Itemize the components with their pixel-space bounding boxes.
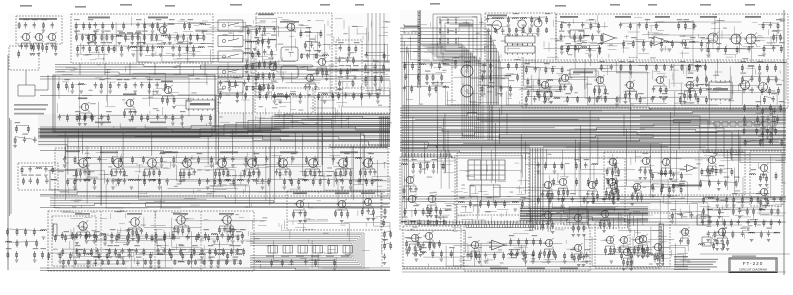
label LBL7 [156,19,162,20]
resistor R279 [426,74,428,82]
resistor R177 [350,169,352,178]
wire [501,67,503,116]
transistor Q21 [364,159,373,168]
wire [63,260,240,262]
wire [524,65,587,80]
wire [64,131,66,158]
ground [432,171,436,173]
wire [623,115,625,137]
wire [400,110,786,112]
label LBL145 [413,205,419,206]
ground [94,31,98,33]
wire shielded cable [250,244,352,257]
resistor R106 [173,96,175,104]
resistor R153 [123,169,125,177]
resistor R40 [77,45,79,53]
label LBL136 [698,84,704,85]
wire [362,146,364,210]
label LBL25 [261,35,267,36]
coil L34 [583,35,589,36]
label LBL123 [619,61,625,62]
coil L35 [581,47,587,48]
coil L51 [660,174,666,175]
capacitor C69 [221,232,224,238]
wire [40,116,390,130]
resistor R313 [599,46,601,54]
ground [668,49,672,51]
wire [673,64,675,87]
wire [367,28,390,56]
capacitor C51 [23,137,26,143]
wire [129,63,131,75]
coil L28 [512,18,518,19]
resistor R284 [435,85,437,93]
capacitor C78 [94,260,97,266]
wire [730,148,732,160]
resistor R83 [315,53,317,59]
ground [411,171,415,173]
resistor R455 [652,172,654,180]
coil L33 [465,62,471,63]
capacitor C151 [721,238,724,244]
resistor R425 [552,221,554,229]
ground [208,257,212,259]
wire [745,139,782,142]
ground [562,199,566,201]
wire [464,206,466,212]
wire [443,31,487,66]
resistor R487 [726,196,728,204]
label LBL148 [435,217,441,218]
ground [507,25,511,27]
resistor R4 [30,43,32,51]
capacitor C15 [257,63,260,69]
ground [426,216,430,218]
node box [570,30,584,38]
wire [613,154,675,197]
capacitor C146 [746,219,749,225]
capacitor C134 [641,246,644,252]
resistor R353 [775,64,777,72]
wire [670,112,672,177]
resistor R62 [263,26,265,34]
resistor R162 [219,169,221,179]
capacitor C84 [487,28,490,34]
capacitor C128 [772,96,775,102]
resistor R76 [263,84,265,92]
coil L54 [708,198,714,199]
resistor R274 [546,28,548,34]
wire [471,78,509,80]
resistor R101 [84,113,86,121]
resistor R535 [604,246,606,255]
transistor Q11 [164,86,171,93]
resistor VR1 [53,224,57,236]
label LBL113 [577,43,583,44]
capacitor C124 [672,172,675,178]
capacitor C32 [133,109,136,115]
resistor R123 [172,114,174,122]
wire [405,224,430,225]
ic U6 [470,185,500,197]
wire [218,242,220,265]
label LBL72 [75,245,81,246]
label LBL66 [22,134,28,135]
wire [247,85,261,87]
resistor R92 [339,80,341,88]
resistor R368 [616,96,618,103]
resistor R523 [549,249,551,257]
wire [589,141,778,143]
ground [189,43,193,45]
ground [303,180,307,182]
transistor Q52 [760,188,767,195]
label [335,193,349,195]
resistor R316 [762,22,764,30]
capacitor C89 [716,46,719,52]
capacitor C100 [769,22,772,28]
capacitor C73 [135,248,138,254]
label LBL176 [722,228,728,229]
ground [121,257,125,259]
wire [573,223,584,225]
label LBL151 [487,197,493,198]
resistor R116 [76,114,78,122]
resistor R240 [293,210,295,219]
wire [343,81,390,107]
label MODE [570,69,596,77]
resistor R119 [107,114,109,122]
ground [119,180,123,182]
label LBL49 [117,79,123,80]
wire [706,61,762,86]
wire [379,13,381,95]
capacitor C95 [638,22,641,28]
resistor R102 [91,113,93,121]
wire [629,98,631,142]
label LBL164 [724,177,730,178]
resistor R254 [16,228,18,236]
block MIX box [452,58,480,105]
ground [363,180,367,182]
resistor R331 [636,91,638,100]
wire [400,119,786,122]
wire [691,203,708,225]
wire [400,127,786,130]
wire shield [441,20,473,54]
ground [738,217,742,219]
capacitor C70 [96,248,99,254]
wire [511,239,541,241]
ground [454,66,458,68]
wire [708,94,710,126]
resistor R317 [777,22,779,30]
wire [425,48,467,139]
wire [302,134,304,176]
resistor R451 [617,192,619,201]
resistor R112 [125,82,127,90]
wire [545,248,554,250]
label LBL18 [88,42,94,43]
wire [640,166,651,168]
label [75,213,90,215]
label LBL154 [461,206,467,207]
wire [485,210,497,212]
wire [259,26,274,28]
resistor R248 [383,219,385,227]
label LBL80 [229,245,235,246]
wire [630,213,689,225]
wire [338,179,382,208]
wire [212,245,234,256]
ground [668,195,672,197]
resistor R180 [76,232,78,240]
resistor R406 [427,220,429,226]
wire [100,146,102,206]
wire [493,184,510,203]
wire [561,150,563,169]
resistor R355 [759,76,761,84]
resistor R188 [229,226,231,233]
ground [15,260,19,262]
capacitor C21 [318,42,321,48]
transistor Q49 [610,182,617,189]
resistor R19 [184,22,186,30]
wire [194,132,298,134]
resistor R370 [538,78,540,86]
resistor R41 [89,45,91,53]
wire [525,164,564,176]
resistor R280 [432,74,434,82]
wire [348,116,350,128]
wire [685,90,696,92]
resistor R352 [766,64,768,72]
wire [163,95,175,97]
transistor Q3 [48,33,55,40]
ground [708,217,712,219]
capacitor C17 [273,26,276,32]
wire [138,33,151,62]
resistor R478 [669,186,671,194]
wire [615,212,702,223]
resistor R35 [177,34,179,42]
ic network [505,36,535,43]
label LBL163 [719,165,725,166]
resistor R263 [42,251,44,259]
transistor Q8 [318,58,325,65]
wire [59,115,210,117]
transistor Q36 [428,195,435,202]
ground [629,269,633,271]
resistor R2 [18,22,20,29]
wire [154,211,156,271]
capacitor C31 [129,109,132,115]
ground [79,180,83,182]
capacitor C80 [299,210,302,216]
label LBL150 [459,197,465,198]
resistor R5 [33,43,35,52]
ground [359,180,363,182]
ground [353,77,357,79]
wire [478,209,480,213]
resistor R473 [762,108,764,116]
ground [85,241,89,243]
wire [520,207,648,212]
wire [436,58,477,139]
wire [178,95,246,128]
wire [248,41,254,42]
resistor R500 [724,219,726,227]
relay RL2 [283,246,293,254]
resistor R17 [152,22,154,30]
wire [400,135,786,139]
wire [145,54,222,56]
wire [552,207,615,209]
wire [292,73,311,83]
transistor Q30 [561,74,568,81]
ground [267,47,271,49]
wire [302,66,338,68]
resistor R169 [279,169,281,179]
ground [746,228,750,230]
wire [324,113,383,115]
capacitor C93 [598,45,601,51]
wire [10,120,12,214]
resistor R366 [596,96,598,103]
wire [654,21,741,23]
coil L31 [443,64,449,65]
coil L56 [759,209,765,210]
label LBL126 [740,61,746,62]
transistor Q2 [35,33,42,40]
ground [187,237,191,239]
resistor R464 [709,180,711,188]
wire [374,213,390,226]
ground [83,180,87,182]
wire [420,28,422,40]
capacitor C109 [742,87,745,93]
resistor R168 [258,169,260,178]
resistor R198 [155,232,157,240]
wire [77,256,134,258]
transistor Q59 [471,241,478,248]
label LBL141 [758,136,764,137]
wire [183,127,185,128]
resistor R96 [383,64,385,72]
resistor R511 [408,244,410,253]
ground [154,241,158,243]
label LBL23 [246,25,252,26]
capacitor C137 [690,212,693,218]
capacitor C155 [582,254,585,260]
capacitor C118 [418,220,421,226]
wire [537,174,605,190]
wire [708,231,777,233]
resistor R372 [537,90,539,98]
wire [258,39,273,40]
wire [40,120,390,132]
wire [248,75,256,77]
wire [447,130,449,156]
label LBL107 [645,19,651,20]
resistor R510 [727,238,729,247]
wire [490,35,492,59]
wire [38,134,390,136]
transistor Q23 [131,218,140,227]
ground [101,31,105,33]
wire [642,34,669,36]
wire [110,37,141,52]
resistor R275 [404,62,406,70]
wire [528,91,549,93]
resistor R538 [623,258,625,267]
resistor R543 [647,245,649,253]
capacitor C83 [486,16,489,22]
wire [702,242,724,244]
resistor R144 [22,178,24,186]
resistor R6 [38,43,40,51]
resistor R159 [183,169,185,179]
transistor Q13 [114,159,123,168]
label LBL54 [106,111,112,112]
ground [761,117,765,119]
resistor R268 [494,28,496,34]
label LBL133 [695,61,701,62]
coil L17 [290,94,296,95]
resistor R34 [169,34,171,42]
wire [700,253,790,255]
switch S1 [218,20,243,31]
resistor R530 [533,238,535,246]
wire [320,99,336,101]
resistor R536 [610,246,612,254]
resistor R56 [252,63,254,71]
transistor Q37 [408,195,415,202]
resistor R499 [717,219,719,227]
coil L45 [401,164,407,165]
resistor R417 [558,188,560,198]
wire [81,43,108,55]
resistor R466 [735,180,737,188]
resistor R283 [429,85,431,93]
wire [78,81,80,123]
wire [400,139,786,141]
ground [656,264,660,266]
label LBL84 [107,257,113,258]
resistor R67 [271,49,273,57]
ground [75,180,79,182]
resistor R182 [132,228,134,237]
wire [377,160,390,196]
resistor R192 [86,232,88,240]
label LBL13 [117,31,123,32]
label LBL171 [670,209,676,210]
resistor R137 [332,92,334,100]
ground [44,175,48,177]
capacitor C82 [383,254,386,260]
resistor R520 [475,251,477,258]
resistor R131 [259,92,261,100]
capacitor C61 [373,169,376,175]
resistor R287 [725,46,727,54]
capacitor C41 [164,114,167,120]
resistor R388 [775,127,777,135]
wire [175,225,189,227]
wire [404,85,446,87]
resistor R44 [108,45,110,53]
transistor Q12 [79,159,88,168]
wire shielded cable [250,246,350,256]
